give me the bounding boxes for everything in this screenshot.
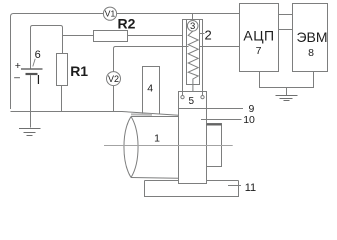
svg-text:V2: V2	[108, 74, 119, 84]
ground GND1	[19, 129, 41, 136]
pipe bottom edge	[131, 177, 179, 180]
heater inner box	[187, 20, 200, 85]
wire sensor to ADC	[200, 46, 240, 48]
wire battery top loop to R1	[31, 26, 63, 70]
leader line to 10	[201, 119, 242, 121]
ground GND2	[276, 96, 298, 101]
svg-text:I: I	[37, 72, 41, 87]
voltmeter V2	[107, 72, 121, 86]
wire battery minus down to ground	[30, 75, 32, 127]
wires boxes to ground bus	[260, 72, 314, 96]
smudge bar under box 4	[131, 113, 152, 115]
voltmeter V1	[103, 7, 116, 20]
resistor R1	[57, 54, 68, 86]
svg-text:10: 10	[243, 114, 255, 126]
svg-text:8: 8	[308, 47, 314, 59]
svg-text:–: –	[14, 71, 20, 83]
leader line to 6	[33, 59, 35, 67]
svg-text:1: 1	[154, 133, 160, 145]
heater sheath	[183, 20, 203, 96]
terminal circle left	[181, 95, 184, 98]
pipe axis line	[104, 145, 233, 147]
leader line to 2	[200, 33, 205, 35]
transducer box 4	[143, 67, 160, 114]
cooler box 11	[145, 181, 239, 197]
wire top bus from left corner to ADC	[11, 14, 240, 110]
pipe left end cap lens right arc	[131, 117, 138, 178]
battery GB long plate	[21, 68, 43, 70]
svg-text:+: +	[15, 60, 21, 72]
ADC box U1	[240, 4, 279, 72]
svg-text:7: 7	[256, 45, 262, 57]
pipe top edge	[131, 116, 179, 118]
computer box U2	[293, 4, 328, 72]
svg-text:2: 2	[205, 27, 212, 42]
wire V2 riser and tap to zigzag left	[114, 47, 189, 72]
indicator circle 3	[187, 21, 198, 32]
svg-text:V1: V1	[105, 9, 116, 19]
wire R2 feed from node	[63, 35, 94, 37]
wire heater feed from top bus	[192, 14, 194, 20]
attachment block thick top	[207, 124, 222, 126]
svg-text:11: 11	[245, 182, 256, 194]
battery GB short plate	[26, 73, 38, 75]
probe body 10	[179, 92, 207, 184]
svg-text:ЭВМ: ЭВМ	[296, 29, 327, 45]
wire bottom bus	[11, 112, 179, 116]
svg-text:АЦП: АЦП	[243, 27, 274, 43]
svg-text:R2: R2	[118, 15, 136, 31]
resistor R2	[94, 31, 128, 42]
pipe left end cap lens left arc	[124, 117, 131, 178]
wire R1 bottom	[61, 86, 63, 112]
svg-text:6: 6	[35, 49, 41, 61]
heater zigzag element	[188, 31, 198, 92]
svg-text:4: 4	[147, 83, 153, 95]
attachment block	[207, 124, 222, 167]
probe divider and leader to 9	[179, 108, 244, 110]
wire R2 to heater	[128, 35, 183, 37]
terminal circle right	[201, 95, 204, 98]
connector wires ADC to computer	[279, 15, 293, 30]
svg-text:5: 5	[189, 96, 195, 107]
svg-text:R1: R1	[70, 63, 88, 79]
svg-text:3: 3	[190, 21, 195, 32]
leader line to 11	[228, 185, 241, 187]
wire V2 down to bus	[113, 86, 115, 112]
